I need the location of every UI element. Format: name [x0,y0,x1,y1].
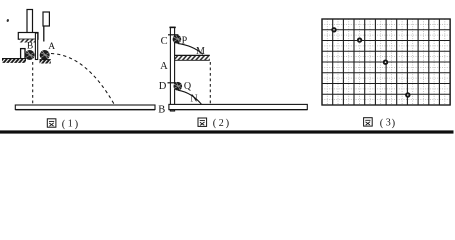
figure 3 caption 图（3） [364,118,396,129]
svg-text:A: A [160,61,168,72]
svg-text:C: C [161,36,168,47]
figure 1: label A [48,42,55,52]
figure 2: label A [160,61,168,72]
figure 2: tick at point D [168,82,179,84]
svg-text:B: B [158,105,165,116]
bottom separator rule [0,130,454,133]
figure 1: dashed vertical drop line under ball B [32,62,34,105]
figure 2: label C [161,36,168,47]
figure 1: hatched pedestal under ball A [40,60,51,64]
figure 2: label B [158,105,165,116]
figure 1: label B [27,41,33,51]
stray ink mark top-left [6,19,9,23]
svg-text:3: 3 [386,118,391,129]
figure 2: dashed vertical reference line below shelf end [209,62,211,104]
svg-text:): ) [226,118,230,129]
figure 2: ball P [172,35,182,44]
figure 1: clamp bar [18,33,38,40]
figure 3: grid major lines [322,19,450,105]
svg-text:(: ( [213,118,217,129]
figure 1: ball B [24,50,35,60]
figure 3: plotted point 2 [357,37,362,42]
svg-text:1: 1 [68,119,73,130]
figure 1: divider plate between balls [35,33,37,60]
figure 1: hatching under clamp bar [20,39,36,42]
figure 1: release pin stem [43,26,45,42]
figure 2: vertical pole [169,27,175,111]
figure 1: ball A [39,50,50,60]
figure 1: floor bar [15,105,155,110]
svg-text:D: D [159,81,167,92]
figure 2: trajectory Q to N [178,90,202,104]
figure 3: graph paper minor dotted lines [322,19,450,105]
svg-text:B: B [27,41,33,51]
svg-text:Q: Q [184,81,192,92]
figure 2: hatched shelf at level A [175,55,210,60]
figure 1: stop bracket left of ball B [21,49,25,60]
figure 2: trajectory P to M [178,43,203,54]
figure 2: label D [159,81,167,92]
figure 1: launcher stand vertical post [27,10,33,33]
figure 1: hatched table ledge [2,59,26,63]
figure 1 caption 图（1） [47,119,78,130]
figure 2: label N [190,93,197,104]
figure 3: plotted point 1 [331,27,336,32]
svg-text:): ) [392,118,396,129]
figure 2: ball Q [172,82,183,91]
svg-text:(: ( [380,118,384,129]
figure 2: label Q [184,81,192,92]
figure 3: plotted point 4 [405,92,410,97]
figure 2 caption 图（2） [198,118,230,129]
figure 2: floor bar [169,104,307,109]
figure 2: label M [196,46,205,57]
svg-text:2: 2 [219,118,224,129]
svg-text:A: A [48,42,55,52]
figure 1: dashed projectile trajectory from ball A [51,54,114,105]
svg-text:(: ( [62,119,66,130]
svg-text:N: N [190,93,197,104]
figure 3: plotted point 3 [383,60,388,65]
svg-text:): ) [75,119,79,130]
figure 2: label P [182,36,188,47]
figure 3: grid border [322,19,450,105]
figure 1: release plate (top right) [43,12,49,26]
figure 2: tick at point C [168,34,178,36]
